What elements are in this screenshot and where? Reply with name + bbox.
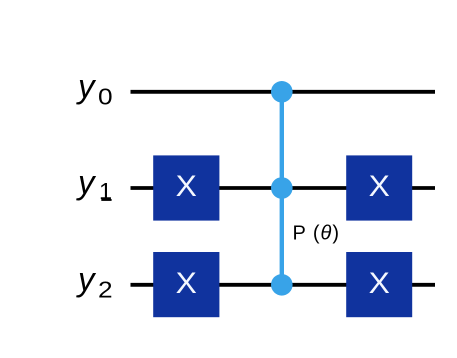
svg-text:y: y — [76, 67, 97, 104]
svg-text:X: X — [369, 267, 390, 300]
svg-text:P (θ): P (θ) — [293, 223, 340, 245]
svg-text:X: X — [176, 267, 197, 300]
svg-text:X: X — [369, 170, 390, 203]
svg-text:2: 2 — [98, 277, 113, 303]
svg-text:y: y — [76, 260, 97, 297]
svg-text:y: y — [76, 164, 97, 201]
svg-text:0: 0 — [98, 84, 113, 110]
svg-text:X: X — [176, 170, 197, 203]
